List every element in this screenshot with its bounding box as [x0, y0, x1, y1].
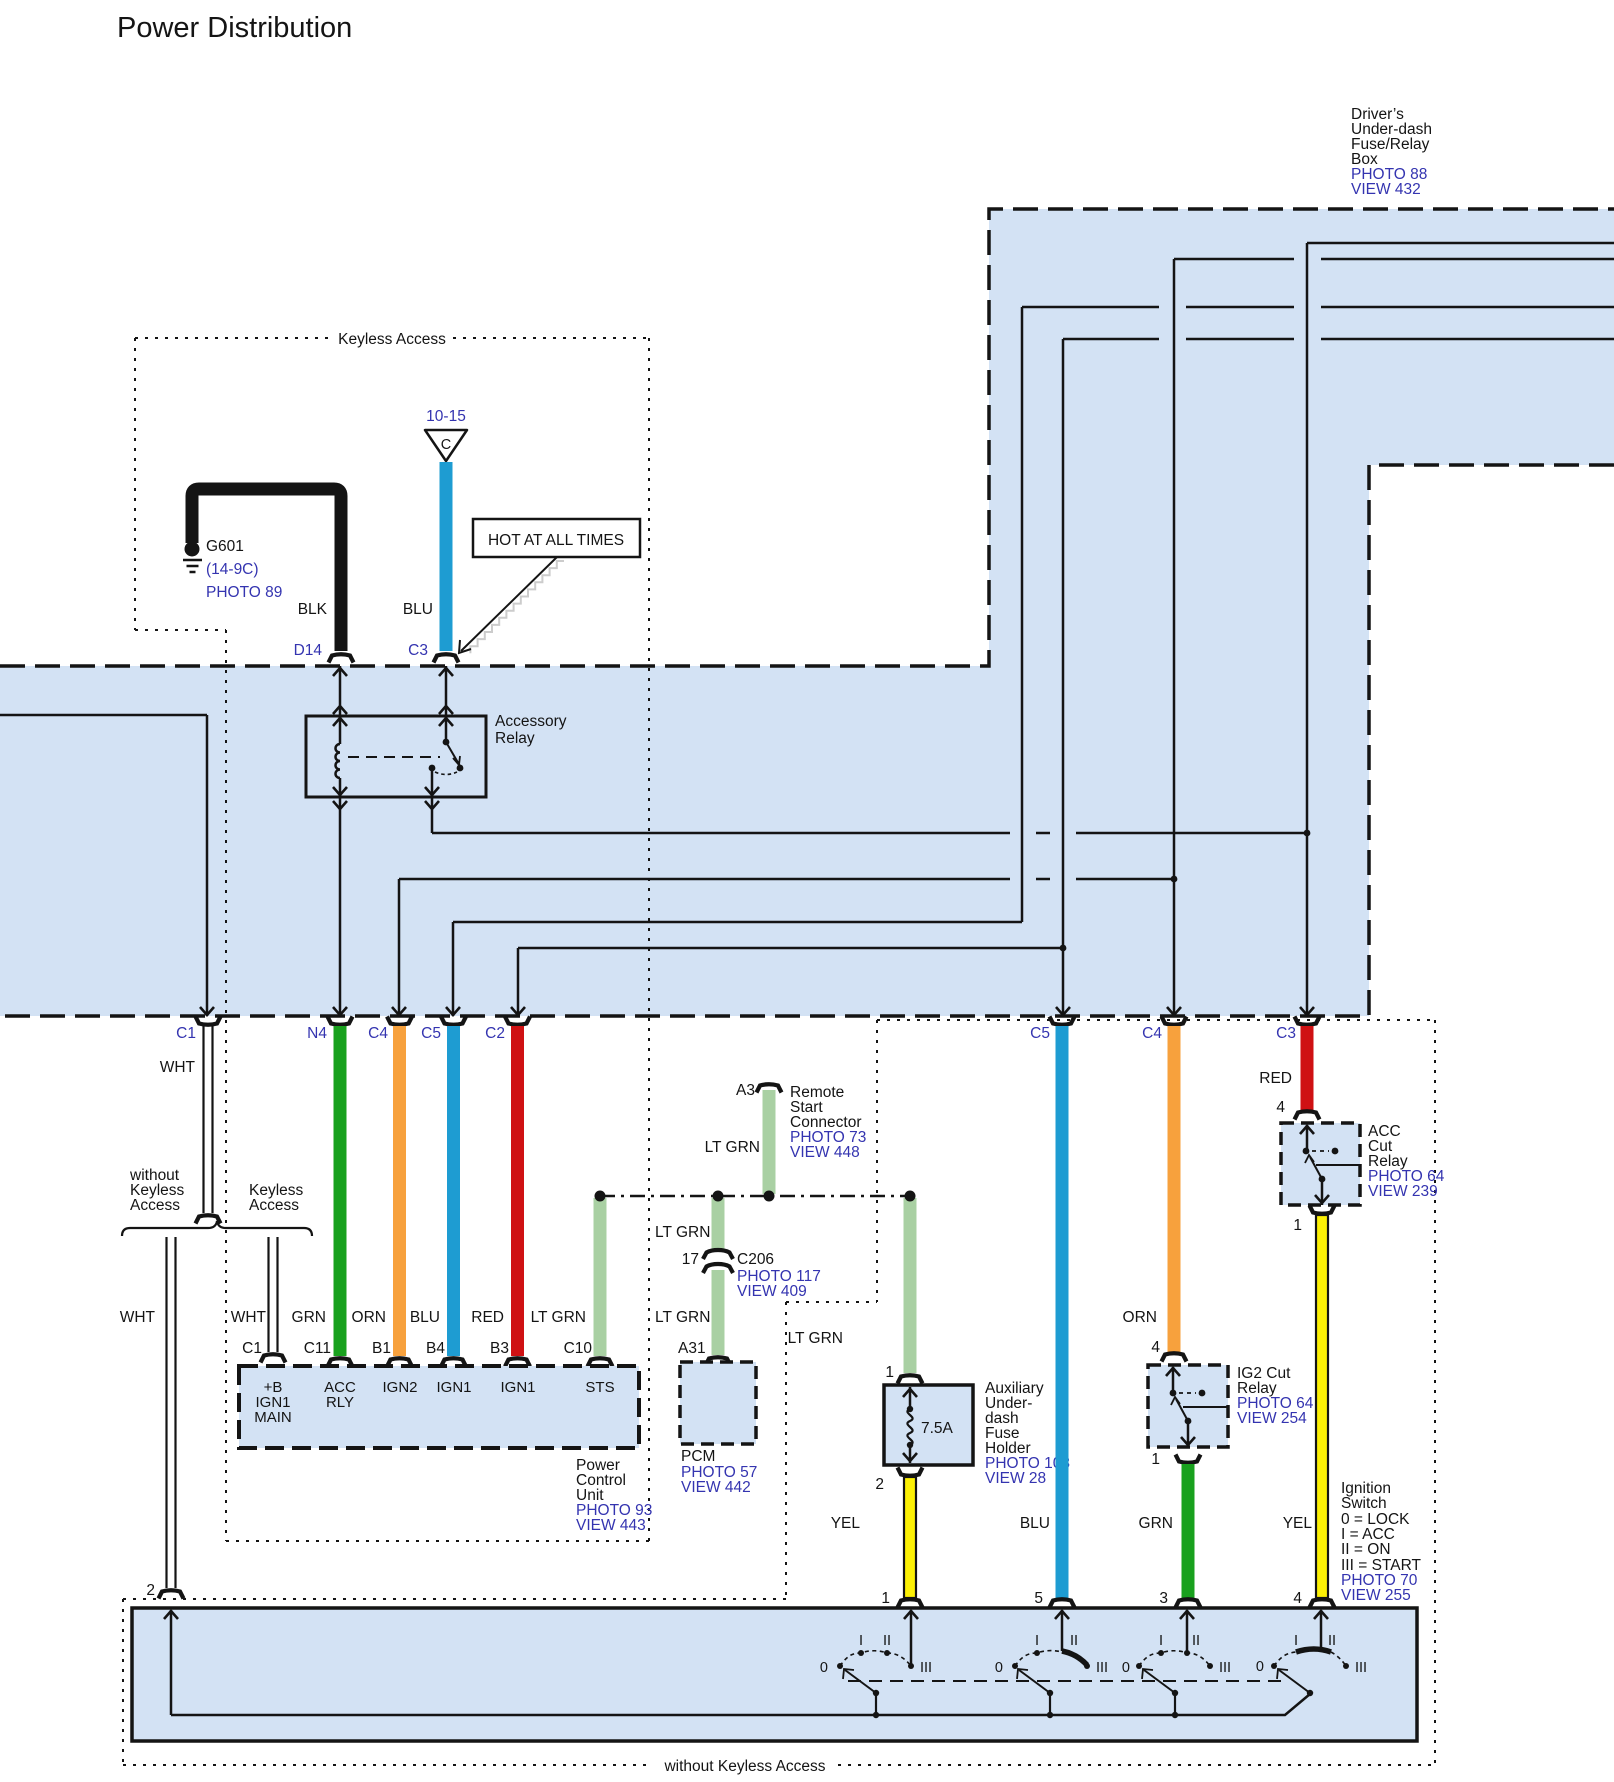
svg-text:10-15: 10-15	[426, 408, 466, 425]
ignition switch wafer 3	[1122, 1610, 1231, 1718]
PCM	[680, 1362, 757, 1496]
IG2 cut relay	[1148, 1365, 1314, 1447]
svg-text:WHT: WHT	[120, 1309, 156, 1326]
svg-text:1: 1	[881, 1590, 890, 1607]
wire BLK ground to D14	[192, 489, 354, 663]
wire ORN C4 to IGN2	[352, 1017, 412, 1367]
svg-text:II: II	[1192, 1633, 1200, 1649]
svg-text:IGN1: IGN1	[436, 1379, 471, 1396]
svg-text:RED: RED	[471, 1309, 504, 1326]
svg-text:LT GRN: LT GRN	[531, 1309, 586, 1326]
svg-text:C4: C4	[1142, 1025, 1162, 1042]
svg-text:BLU: BLU	[403, 601, 433, 618]
svg-text:RLY: RLY	[326, 1394, 354, 1411]
svg-text:1: 1	[1151, 1451, 1160, 1468]
svg-text:3: 3	[1159, 1590, 1168, 1607]
wire split brace	[122, 1167, 312, 1236]
svg-text:Keyless Access: Keyless Access	[338, 331, 446, 348]
svg-text:0: 0	[995, 1660, 1003, 1676]
wire IGN1 feed (C5 left)	[446, 307, 1614, 1016]
svg-text:GRN: GRN	[292, 1309, 326, 1326]
svg-text:III: III	[1096, 1660, 1108, 1676]
svg-text:without Keyless Access: without Keyless Access	[663, 1758, 825, 1775]
svg-text:I: I	[1159, 1633, 1163, 1649]
svg-text:4: 4	[1276, 1099, 1285, 1116]
svg-text:I: I	[859, 1633, 863, 1649]
svg-text:VIEW 409: VIEW 409	[737, 1283, 807, 1300]
accessory relay switch branch (C3 feed)	[348, 666, 463, 809]
svg-text:C4: C4	[368, 1025, 388, 1042]
svg-text:MAIN: MAIN	[254, 1409, 292, 1426]
svg-text:C3: C3	[1276, 1025, 1296, 1042]
svg-text:PHOTO 89: PHOTO 89	[206, 584, 282, 601]
svg-text:PCM: PCM	[681, 1448, 715, 1465]
svg-text:I: I	[1035, 1633, 1039, 1649]
wire GRN N4 to ACC RLY	[292, 1017, 353, 1367]
wire +B feed to C1	[0, 715, 214, 1016]
wire WHT without keyless (to ignition switch pin 2)	[120, 1237, 184, 1599]
svg-text:A3: A3	[736, 1082, 755, 1099]
callout HOT AT ALL TIMES	[459, 519, 640, 653]
svg-text:0: 0	[1256, 1659, 1264, 1675]
svg-text:Accessory: Accessory	[495, 713, 567, 730]
svg-text:YEL: YEL	[831, 1515, 861, 1532]
ignition switch internal feed wire (pin 2)	[164, 1610, 178, 1715]
svg-text:LT GRN: LT GRN	[655, 1309, 710, 1326]
svg-text:LT GRN: LT GRN	[788, 1330, 843, 1347]
remote start connector A3	[705, 1082, 867, 1194]
svg-text:0: 0	[820, 1660, 828, 1676]
wire LT GRN to auxiliary fuse	[788, 1198, 923, 1384]
svg-text:2: 2	[146, 1582, 155, 1599]
svg-text:1: 1	[1293, 1217, 1302, 1234]
svg-text:C2: C2	[485, 1025, 505, 1042]
svg-text:2: 2	[875, 1476, 884, 1493]
without keyless access region (right) outline	[786, 1020, 1435, 1765]
svg-text:II: II	[1070, 1633, 1078, 1649]
wire BLU C5 right to ignition switch pin 5	[1020, 1017, 1075, 1608]
svg-text:VIEW 442: VIEW 442	[681, 1479, 751, 1496]
svg-text:Switch: Switch	[1341, 1495, 1387, 1512]
svg-text:B1: B1	[372, 1340, 391, 1357]
svg-text:VIEW 255: VIEW 255	[1341, 1587, 1411, 1604]
svg-text:C11: C11	[304, 1340, 331, 1357]
ACC cut relay	[1281, 1123, 1445, 1205]
svg-text:IGN1: IGN1	[500, 1379, 535, 1396]
svg-text:D14: D14	[294, 642, 323, 659]
ignition switch wafer 1	[820, 1610, 932, 1718]
svg-text:5: 5	[1034, 1590, 1043, 1607]
svg-text:II: II	[1328, 1633, 1336, 1649]
wire YEL aux fuse to ignition switch pin 1	[831, 1468, 923, 1608]
ignition switch box	[132, 1608, 1417, 1741]
svg-text:VIEW 432: VIEW 432	[1351, 181, 1421, 198]
svg-text:GRN: GRN	[1139, 1515, 1173, 1532]
auxiliary under-dash fuse holder	[884, 1380, 1070, 1487]
title	[117, 12, 352, 44]
svg-text:C: C	[441, 437, 451, 453]
wire RED C3 right to ACC cut relay	[1259, 1017, 1319, 1120]
svg-text:C5: C5	[421, 1025, 441, 1042]
svg-text:1: 1	[885, 1364, 894, 1381]
svg-text:C5: C5	[1030, 1025, 1050, 1042]
svg-text:WHT: WHT	[231, 1309, 267, 1326]
svg-text:Access: Access	[130, 1197, 180, 1214]
svg-text:LT GRN: LT GRN	[655, 1224, 710, 1241]
svg-text:N4: N4	[307, 1025, 327, 1042]
svg-text:STS: STS	[585, 1379, 614, 1396]
ignition switch common bus	[171, 1681, 1310, 1715]
svg-text:0: 0	[1122, 1660, 1130, 1676]
svg-text:VIEW 239: VIEW 239	[1368, 1183, 1438, 1200]
svg-text:4: 4	[1293, 1590, 1302, 1607]
svg-text:VIEW 448: VIEW 448	[790, 1144, 860, 1161]
svg-text:17: 17	[682, 1251, 699, 1268]
svg-text:(14-9C): (14-9C)	[206, 561, 259, 578]
svg-text:VIEW 443: VIEW 443	[576, 1517, 646, 1534]
svg-text:4: 4	[1151, 1339, 1160, 1356]
svg-text:Relay: Relay	[495, 730, 535, 747]
svg-text:C10: C10	[564, 1340, 593, 1357]
svg-text:HOT AT ALL TIMES: HOT AT ALL TIMES	[488, 532, 624, 549]
wire ORN C4 right to IG2 cut relay	[1123, 1017, 1187, 1362]
ground G601	[183, 538, 282, 601]
svg-text:WHT: WHT	[160, 1059, 196, 1076]
svg-text:C1: C1	[176, 1025, 196, 1042]
wire IGN2 feed (C4 both sides)	[392, 259, 1614, 1016]
svg-text:RED: RED	[1259, 1070, 1292, 1087]
ignition switch wafer 4	[1256, 1610, 1367, 1696]
svg-text:G601: G601	[206, 538, 244, 555]
svg-text:A31: A31	[678, 1340, 706, 1357]
svg-text:III: III	[1219, 1660, 1231, 1676]
svg-text:LT GRN: LT GRN	[705, 1139, 760, 1156]
ignition switch wafer 2	[995, 1610, 1108, 1718]
svg-text:YEL: YEL	[1283, 1515, 1313, 1532]
svg-text:Access: Access	[249, 1197, 299, 1214]
power control unit	[239, 1366, 652, 1534]
svg-text:C206: C206	[737, 1251, 774, 1268]
svg-text:II: II	[883, 1633, 891, 1649]
connector C1 white wire	[160, 1017, 221, 1224]
driver's under-dash fuse/relay box	[0, 106, 1614, 1016]
wire GRN IG2 to ignition switch pin 3	[1139, 1451, 1201, 1608]
without keyless access region (bottom) outline	[123, 1599, 1435, 1775]
svg-text:Power Distribution: Power Distribution	[117, 12, 352, 44]
remote start branch dashed wire	[595, 1191, 916, 1202]
wire LT GRN via C206 to PCM A31	[655, 1198, 821, 1366]
svg-text:ORN: ORN	[352, 1309, 386, 1326]
svg-text:C3: C3	[408, 642, 428, 659]
svg-text:VIEW 28: VIEW 28	[985, 1470, 1046, 1487]
svg-text:C1: C1	[242, 1340, 262, 1357]
keyless access region outline	[135, 331, 649, 1541]
wire BLU C3 (hot at all times)	[403, 462, 459, 663]
svg-text:BLK: BLK	[298, 601, 328, 618]
svg-text:ORN: ORN	[1123, 1309, 1157, 1326]
svg-text:III: III	[1355, 1660, 1367, 1676]
svg-text:B4: B4	[426, 1340, 445, 1357]
wire YEL ACC to ignition switch pin 4	[1283, 1206, 1422, 1608]
svg-text:B3: B3	[490, 1340, 509, 1357]
wire relay output to ACC cut relay feed	[432, 243, 1614, 1016]
wire RED C2 to IGN1	[471, 1017, 530, 1367]
svg-text:BLU: BLU	[1020, 1515, 1050, 1532]
svg-text:IGN2: IGN2	[382, 1379, 417, 1396]
svg-text:BLU: BLU	[410, 1309, 440, 1326]
accessory relay	[306, 713, 567, 797]
wire LT GRN STS	[531, 1198, 613, 1367]
svg-text:7.5A: 7.5A	[921, 1420, 954, 1437]
accessory relay coil branch (D14 to N4)	[333, 666, 347, 1016]
svg-text:I: I	[1294, 1633, 1298, 1649]
connector C 10-15	[425, 408, 467, 461]
wire IGN1 feed (C2 and C5 right)	[511, 339, 1614, 1016]
wire WHT keyless (to PCU C1)	[231, 1237, 286, 1363]
svg-text:III: III	[920, 1660, 932, 1676]
svg-text:II = ON: II = ON	[1341, 1541, 1391, 1558]
wire BLU C5 to IGN1	[410, 1017, 466, 1367]
svg-text:VIEW 254: VIEW 254	[1237, 1410, 1307, 1427]
